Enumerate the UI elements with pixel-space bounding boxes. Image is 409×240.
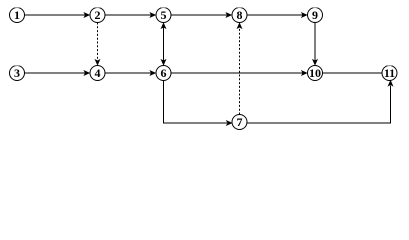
svg-text:9: 9	[312, 8, 318, 22]
wire 5-6 double arrow	[161, 22, 167, 65]
wire 2-5	[105, 12, 156, 18]
node 3	[10, 66, 25, 81]
node 2	[90, 8, 105, 23]
node 11	[382, 66, 397, 81]
wire 7-11	[246, 80, 393, 123]
wire 4-6	[105, 70, 156, 76]
wire 1-2	[25, 12, 91, 18]
wire 7-8 dashed	[237, 22, 243, 114]
svg-text:8: 8	[237, 8, 243, 22]
svg-text:1: 1	[14, 8, 20, 22]
svg-text:2: 2	[95, 8, 101, 22]
wire 10-11	[323, 72, 383, 74]
node 6	[156, 66, 171, 81]
node 10	[308, 66, 323, 81]
svg-text:7: 7	[237, 115, 243, 129]
node 7	[232, 115, 247, 130]
node 1	[10, 8, 25, 23]
node 8	[232, 8, 247, 23]
wire 2-4 dashed	[95, 23, 101, 66]
svg-text:6: 6	[161, 66, 167, 80]
svg-text:5: 5	[161, 8, 167, 22]
wire 9-10	[312, 23, 318, 66]
wire 3-4	[25, 70, 91, 76]
svg-text:3: 3	[14, 66, 20, 80]
node 5	[156, 8, 171, 23]
node 9	[308, 8, 323, 23]
wire 5-8	[171, 12, 232, 18]
svg-text:10: 10	[309, 66, 321, 80]
wire 6-7	[164, 81, 233, 127]
node 4	[90, 66, 105, 81]
svg-text:11: 11	[384, 66, 395, 80]
wire 8-9	[247, 12, 308, 18]
svg-text:4: 4	[95, 66, 101, 80]
wire 6-10	[171, 70, 308, 76]
